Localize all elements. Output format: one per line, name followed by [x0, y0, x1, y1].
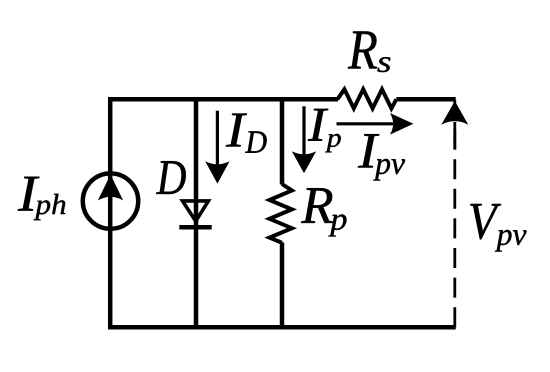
label R_p subscript p — [328, 214, 346, 236]
arrow I_D head (down) — [205, 161, 229, 183]
label R_s main R — [348, 31, 377, 68]
V_pv dashed line first dash (joins arrowhead) — [453, 122, 456, 149]
V_pv dashed measurement line — [453, 100, 456, 327]
label I_p main I — [308, 109, 328, 141]
current source arrowhead (up) — [98, 175, 123, 201]
label V_pv subscript pv — [495, 230, 527, 252]
label R_s subscript s — [377, 57, 390, 72]
arrow I_pv stem — [337, 122, 394, 125]
diode D cathode bar — [179, 225, 211, 230]
wire: top rail left segment — [108, 97, 338, 102]
arrow I_D stem — [216, 111, 219, 166]
label I_D main I — [226, 114, 247, 147]
resistor R_s zigzag — [337, 89, 396, 108]
label D label — [156, 161, 186, 194]
wire: shunt branch bottom — [280, 243, 285, 328]
resistor R_p zigzag — [270, 184, 292, 243]
label I_D subscript D — [245, 131, 266, 152]
label V_pv main V — [470, 204, 501, 239]
wire: top rail right segment — [396, 97, 455, 102]
label I_p subscript p — [325, 134, 341, 152]
label I_pv main I — [358, 134, 379, 167]
arrow I_p head (down) — [292, 151, 316, 173]
label I_ph subscript ph — [34, 194, 66, 220]
diode D triangle — [183, 201, 209, 221]
arrow I_p stem — [302, 106, 305, 156]
arrow I_pv head (right) — [390, 113, 414, 135]
label I_pv subscript pv — [373, 159, 405, 181]
label R_p main R — [301, 188, 333, 223]
wire: diode branch — [194, 97, 199, 327]
label I_ph main I — [18, 177, 40, 211]
current source I_ph circle — [83, 173, 138, 228]
wire: bottom rail — [108, 325, 456, 330]
V_pv arrowhead (up) — [441, 101, 468, 125]
wire: left branch — [108, 97, 113, 329]
wire: shunt branch top — [280, 97, 285, 184]
